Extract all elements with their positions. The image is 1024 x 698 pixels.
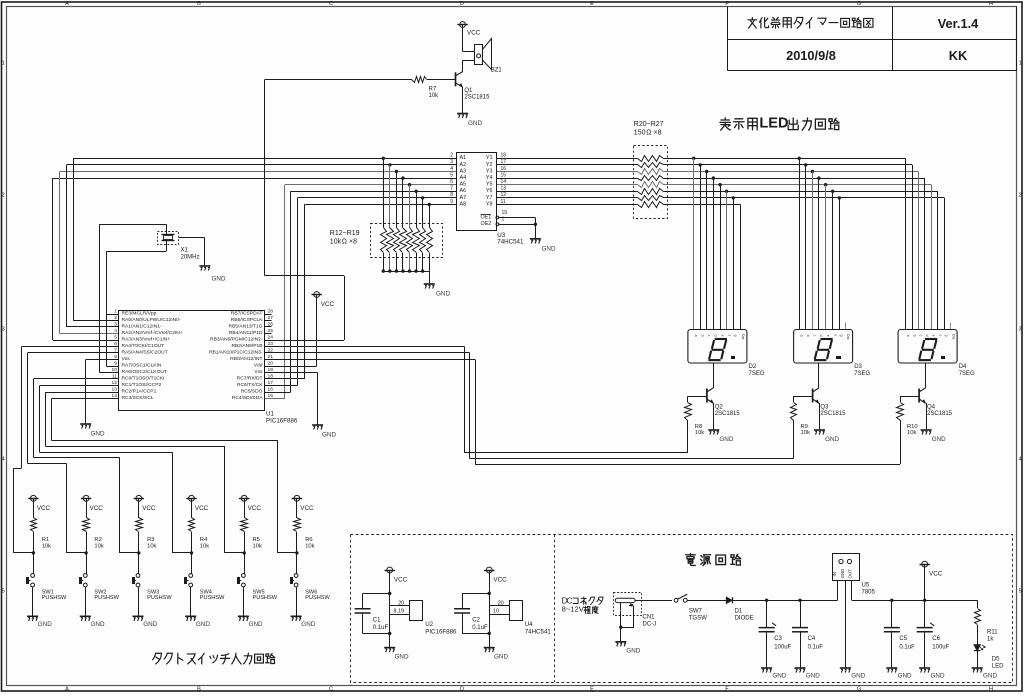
svg-text:g: g xyxy=(945,335,949,337)
svg-text:Ver.1.4: Ver.1.4 xyxy=(938,16,979,31)
svg-text:R9: R9 xyxy=(801,424,808,430)
svg-text:GND: GND xyxy=(825,436,839,443)
svg-text:a: a xyxy=(694,335,698,337)
svg-text:7SEG: 7SEG xyxy=(959,371,975,377)
svg-text:R10: R10 xyxy=(907,424,918,430)
svg-text:g: g xyxy=(734,335,738,337)
svg-text:C: C xyxy=(329,1,333,7)
svg-text:B: B xyxy=(197,687,201,693)
svg-text:VCC: VCC xyxy=(321,301,335,308)
svg-text:RA3/AN3/Vref+/C1IN+: RA3/AN3/Vref+/C1IN+ xyxy=(122,337,171,343)
svg-text:G: G xyxy=(857,687,861,693)
svg-text:2SC1815: 2SC1815 xyxy=(927,411,953,417)
svg-text:3: 3 xyxy=(114,322,117,328)
svg-text:CN1: CN1 xyxy=(643,615,656,621)
svg-text:9: 9 xyxy=(114,361,117,367)
svg-text:10: 10 xyxy=(493,609,499,615)
svg-text:U5: U5 xyxy=(862,582,870,588)
svg-text:0.1uF: 0.1uF xyxy=(808,644,824,650)
svg-text:F: F xyxy=(725,687,729,693)
svg-text:10k: 10k xyxy=(695,430,704,436)
svg-text:2SC1815: 2SC1815 xyxy=(464,94,490,100)
svg-text:2: 2 xyxy=(450,153,453,159)
svg-text:13: 13 xyxy=(112,387,118,393)
svg-text:1: 1 xyxy=(2,60,5,66)
svg-text:2010/9/8: 2010/9/8 xyxy=(786,48,836,63)
svg-text:13: 13 xyxy=(501,186,507,192)
svg-text:10k: 10k xyxy=(330,238,342,245)
svg-text:Y3: Y3 xyxy=(486,168,493,174)
svg-text:RB1/AN10/P1C/C12IN3-: RB1/AN10/P1C/C12IN3- xyxy=(209,350,263,356)
svg-text:OUT: OUT xyxy=(848,569,853,579)
svg-text:5: 5 xyxy=(2,588,5,594)
svg-text:A1: A1 xyxy=(460,155,467,161)
svg-text:RC4/SDI/SDA: RC4/SDI/SDA xyxy=(232,395,263,401)
svg-text:c: c xyxy=(707,335,711,337)
svg-text:VCC: VCC xyxy=(929,571,943,578)
svg-text:Q3: Q3 xyxy=(820,405,829,411)
svg-text:U1: U1 xyxy=(266,410,274,417)
svg-text:d: d xyxy=(819,335,823,337)
svg-text:9: 9 xyxy=(450,199,453,205)
svg-text:GND: GND xyxy=(301,621,315,628)
svg-text:KK: KK xyxy=(949,48,968,63)
svg-text:GND: GND xyxy=(38,621,52,628)
svg-text:5: 5 xyxy=(114,335,117,341)
svg-text:H: H xyxy=(989,687,993,693)
svg-text:C5: C5 xyxy=(899,636,907,642)
svg-text:RC5/SDO: RC5/SDO xyxy=(241,389,263,395)
svg-text:RA5/AN4/SS/C2OUT: RA5/AN4/SS/C2OUT xyxy=(122,350,168,356)
svg-text:PUSHSW: PUSHSW xyxy=(305,595,330,601)
svg-text:c: c xyxy=(919,335,923,337)
svg-text:f: f xyxy=(833,335,837,336)
svg-text:R7: R7 xyxy=(429,87,437,93)
svg-text:RC1/T1OSI/CCP2: RC1/T1OSI/CCP2 xyxy=(122,382,162,388)
svg-text:4: 4 xyxy=(1019,456,1022,462)
svg-text:RA7/OSC1/CLKIN: RA7/OSC1/CLKIN xyxy=(122,363,162,369)
svg-text:Vdd: Vdd xyxy=(254,363,263,369)
svg-text:e: e xyxy=(720,335,724,337)
svg-text:C2: C2 xyxy=(472,617,480,623)
svg-text:PUSHSW: PUSHSW xyxy=(200,595,225,601)
svg-text:Q4: Q4 xyxy=(927,405,936,411)
svg-text:C6: C6 xyxy=(932,636,940,642)
svg-text:11: 11 xyxy=(501,199,506,205)
svg-text:2SC1815: 2SC1815 xyxy=(715,411,741,417)
svg-text:20MHz: 20MHz xyxy=(181,254,200,260)
svg-text:F: F xyxy=(725,1,729,7)
svg-text:Vss: Vss xyxy=(254,369,263,375)
svg-text:GND: GND xyxy=(626,648,640,655)
svg-text:PUSHSW: PUSHSW xyxy=(253,595,278,601)
svg-text:GND: GND xyxy=(719,436,733,443)
svg-text:R1: R1 xyxy=(42,537,49,543)
svg-text:b: b xyxy=(700,335,704,337)
svg-text:GND: GND xyxy=(931,673,945,680)
svg-text:GND: GND xyxy=(851,673,865,680)
svg-text:GND: GND xyxy=(542,245,556,252)
svg-text:20: 20 xyxy=(268,361,274,367)
svg-text:R20~R27: R20~R27 xyxy=(634,121,664,128)
svg-text:VCC: VCC xyxy=(248,505,262,512)
svg-text:GND: GND xyxy=(468,120,482,127)
svg-text:C1: C1 xyxy=(373,617,381,623)
svg-text:X1: X1 xyxy=(181,247,189,253)
svg-text:D3: D3 xyxy=(854,364,862,370)
svg-text:TGSW: TGSW xyxy=(689,615,707,621)
svg-text:LED: LED xyxy=(759,116,788,132)
svg-text:GND: GND xyxy=(91,431,105,438)
svg-text:Dot: Dot xyxy=(741,334,745,339)
svg-text:E: E xyxy=(590,687,594,693)
svg-text:C: C xyxy=(329,687,333,693)
svg-text:8~12V: 8~12V xyxy=(562,605,585,614)
svg-text:24: 24 xyxy=(268,335,274,341)
svg-text:Vss: Vss xyxy=(122,356,131,362)
svg-text:Dot: Dot xyxy=(846,334,850,339)
svg-text:B: B xyxy=(197,1,201,7)
svg-text:7805: 7805 xyxy=(862,590,876,596)
svg-text:RC0/T1OSO/T1CKI: RC0/T1OSO/T1CKI xyxy=(122,376,165,382)
svg-text:R2: R2 xyxy=(94,537,101,543)
svg-text:GND: GND xyxy=(932,436,946,443)
svg-text:2SC1815: 2SC1815 xyxy=(820,411,846,417)
svg-text:VCC: VCC xyxy=(394,577,408,584)
svg-text:VCC: VCC xyxy=(37,505,51,512)
svg-text:RB0/AN12/INT: RB0/AN12/INT xyxy=(230,356,262,362)
svg-text:18: 18 xyxy=(268,374,274,380)
svg-text:GND: GND xyxy=(806,673,820,680)
svg-text:74HC541: 74HC541 xyxy=(525,629,552,636)
svg-text:4: 4 xyxy=(2,456,5,462)
svg-text:74HC541: 74HC541 xyxy=(497,238,524,245)
svg-text:b: b xyxy=(912,335,916,337)
svg-text:R12~R19: R12~R19 xyxy=(330,230,360,237)
svg-text:G: G xyxy=(857,1,861,7)
svg-text:D2: D2 xyxy=(749,364,757,370)
svg-text:R11: R11 xyxy=(987,629,998,635)
svg-text:U2: U2 xyxy=(425,621,433,628)
svg-text:H: H xyxy=(989,1,993,7)
svg-text:8,19: 8,19 xyxy=(394,609,405,615)
svg-text:GND: GND xyxy=(249,621,263,628)
svg-text:PUSHSW: PUSHSW xyxy=(147,595,172,601)
svg-text:VCC: VCC xyxy=(142,505,156,512)
svg-text:Y5: Y5 xyxy=(486,182,493,188)
svg-text:OE2: OE2 xyxy=(481,221,492,227)
svg-text:10k: 10k xyxy=(907,430,916,436)
svg-text:Y4: Y4 xyxy=(486,175,493,181)
svg-text:10k: 10k xyxy=(801,430,810,436)
svg-text:10k: 10k xyxy=(200,543,209,549)
svg-text:U4: U4 xyxy=(525,621,533,628)
svg-text:LED: LED xyxy=(992,664,1004,670)
svg-text:GND: GND xyxy=(436,290,450,297)
svg-text:b: b xyxy=(806,335,810,337)
svg-text:0.1uF: 0.1uF xyxy=(472,625,488,631)
svg-text:10k: 10k xyxy=(305,543,314,549)
svg-text:DC-J: DC-J xyxy=(643,622,657,628)
svg-text:6: 6 xyxy=(450,179,453,185)
svg-text:4: 4 xyxy=(114,328,117,334)
svg-text:PUSHSW: PUSHSW xyxy=(94,595,119,601)
svg-text:2: 2 xyxy=(1019,192,1022,198)
svg-text:RC3/SCK/SCL: RC3/SCK/SCL xyxy=(122,395,154,401)
svg-text:RB4/AN11/P1D: RB4/AN11/P1D xyxy=(229,330,263,336)
svg-text:3: 3 xyxy=(1019,326,1022,332)
svg-text:d: d xyxy=(925,335,929,337)
svg-text:RB2/AN8/P1B: RB2/AN8/P1B xyxy=(232,343,263,349)
svg-text:R8: R8 xyxy=(695,424,702,430)
svg-text:Ω ×8: Ω ×8 xyxy=(342,238,357,245)
svg-text:VCC: VCC xyxy=(90,505,104,512)
svg-text:20: 20 xyxy=(498,601,504,607)
svg-text:R5: R5 xyxy=(253,537,260,543)
svg-text:150: 150 xyxy=(634,129,646,136)
svg-text:10k: 10k xyxy=(94,543,103,549)
svg-text:2: 2 xyxy=(2,192,5,198)
svg-text:10k: 10k xyxy=(147,543,156,549)
svg-text:0.1uF: 0.1uF xyxy=(373,625,389,631)
svg-text:GND: GND xyxy=(322,432,336,439)
svg-text:C4: C4 xyxy=(808,636,816,642)
svg-text:10k: 10k xyxy=(429,93,440,99)
svg-text:A: A xyxy=(65,1,69,7)
svg-text:e: e xyxy=(932,335,936,337)
svg-text:GND: GND xyxy=(196,621,210,628)
svg-text:IN: IN xyxy=(832,572,837,576)
svg-text:RC2/P1A/CCP1: RC2/P1A/CCP1 xyxy=(122,389,157,395)
svg-text:d: d xyxy=(714,335,718,337)
svg-text:10k: 10k xyxy=(253,543,262,549)
svg-text:3: 3 xyxy=(2,326,5,332)
svg-text:c: c xyxy=(813,335,817,337)
svg-text:PIC16F886: PIC16F886 xyxy=(425,629,457,636)
svg-text:GND: GND xyxy=(772,673,786,680)
svg-text:19: 19 xyxy=(502,210,508,216)
svg-text:7: 7 xyxy=(450,186,453,192)
svg-text:GND: GND xyxy=(143,621,157,628)
svg-text:1: 1 xyxy=(1019,60,1022,66)
svg-text:1k: 1k xyxy=(987,637,994,643)
svg-text:RB3/AN9/PGM/C12IN2-: RB3/AN9/PGM/C12IN2- xyxy=(210,337,263,343)
svg-text:A3: A3 xyxy=(460,168,467,174)
svg-text:14: 14 xyxy=(501,179,507,185)
svg-text:R3: R3 xyxy=(147,537,154,543)
svg-text:A4: A4 xyxy=(460,175,467,181)
svg-text:A2: A2 xyxy=(460,162,467,168)
svg-text:RA4/T0CKI/C1OUT: RA4/T0CKI/C1OUT xyxy=(122,343,165,349)
svg-text:15: 15 xyxy=(501,172,507,178)
svg-text:RB7/ICSPDAT: RB7/ICSPDAT xyxy=(231,311,263,317)
svg-text:RA0/AN0/ULPWU/C12IN0-: RA0/AN0/ULPWU/C12IN0- xyxy=(122,317,181,323)
svg-text:5: 5 xyxy=(1019,588,1022,594)
svg-text:f: f xyxy=(727,335,731,336)
svg-text:A7: A7 xyxy=(460,195,467,201)
svg-text:RA2/AN2/Vref-/CVref/C2IN+: RA2/AN2/Vref-/CVref/C2IN+ xyxy=(122,330,183,336)
svg-text:D: D xyxy=(460,687,464,693)
svg-text:100uF: 100uF xyxy=(932,644,949,650)
svg-text:GND: GND xyxy=(212,275,226,282)
svg-text:Y1: Y1 xyxy=(486,155,493,161)
svg-text:D1: D1 xyxy=(735,608,743,614)
svg-text:100uF: 100uF xyxy=(774,644,791,650)
svg-text:R6: R6 xyxy=(305,537,312,543)
svg-text:Q2: Q2 xyxy=(715,405,724,411)
svg-text:A8: A8 xyxy=(460,201,467,207)
svg-text:PIC16F886: PIC16F886 xyxy=(266,418,298,425)
svg-text:RE3/MCLR/Vpp: RE3/MCLR/Vpp xyxy=(122,311,157,317)
svg-text:4: 4 xyxy=(450,166,453,172)
svg-text:GND: GND xyxy=(494,654,508,661)
svg-text:GND: GND xyxy=(840,569,845,579)
svg-text:RB5/AN13/T1G: RB5/AN13/T1G xyxy=(229,324,263,330)
svg-text:OE1: OE1 xyxy=(481,214,492,220)
svg-text:GND: GND xyxy=(395,654,409,661)
svg-text:RC6/TX/CK: RC6/TX/CK xyxy=(237,382,263,388)
svg-text:Y8: Y8 xyxy=(486,201,493,207)
svg-text:7SEG: 7SEG xyxy=(854,371,870,377)
svg-text:R4: R4 xyxy=(200,537,208,543)
svg-text:2: 2 xyxy=(114,315,117,321)
svg-text:3: 3 xyxy=(450,159,453,165)
svg-text:RC7/RX/DT: RC7/RX/DT xyxy=(237,376,263,382)
svg-text:Q1: Q1 xyxy=(464,88,473,94)
svg-text:12: 12 xyxy=(501,192,507,198)
svg-text:16: 16 xyxy=(268,387,274,393)
svg-text:0.1uF: 0.1uF xyxy=(899,644,915,650)
svg-text:RA6/OSC2/CLKOUT: RA6/OSC2/CLKOUT xyxy=(122,369,167,375)
svg-text:GND: GND xyxy=(983,673,997,680)
svg-text:8: 8 xyxy=(450,192,453,198)
svg-text:PUSHSW: PUSHSW xyxy=(42,595,67,601)
svg-text:18: 18 xyxy=(501,153,507,159)
svg-text:16: 16 xyxy=(501,166,507,172)
svg-text:VCC: VCC xyxy=(300,505,314,512)
svg-text:e: e xyxy=(826,335,830,337)
svg-text:Y2: Y2 xyxy=(486,162,493,168)
svg-text:15: 15 xyxy=(268,393,274,399)
svg-text:BZ1: BZ1 xyxy=(491,67,503,73)
svg-text:VCC: VCC xyxy=(467,29,481,36)
svg-text:g: g xyxy=(840,335,844,337)
svg-text:7SEG: 7SEG xyxy=(749,371,765,377)
svg-text:SW7: SW7 xyxy=(689,608,703,614)
svg-text:VCC: VCC xyxy=(493,577,507,584)
svg-text:10k: 10k xyxy=(42,543,51,549)
svg-text:1: 1 xyxy=(114,309,117,315)
svg-text:a: a xyxy=(906,335,910,337)
svg-text:GND: GND xyxy=(898,673,912,680)
svg-text:RB6/ICSPCLK: RB6/ICSPCLK xyxy=(231,317,264,323)
svg-text:Y6: Y6 xyxy=(486,188,493,194)
svg-text:20: 20 xyxy=(398,601,404,607)
svg-text:RA1/AN1/C12IN1-: RA1/AN1/C12IN1- xyxy=(122,324,162,330)
svg-text:A: A xyxy=(65,687,69,693)
svg-text:GND: GND xyxy=(91,621,105,628)
svg-text:A5: A5 xyxy=(460,182,467,188)
svg-text:VCC: VCC xyxy=(195,505,209,512)
svg-text:5: 5 xyxy=(450,172,453,178)
svg-text:Ω ×8: Ω ×8 xyxy=(646,129,661,136)
svg-text:a: a xyxy=(799,335,803,337)
svg-text:Y7: Y7 xyxy=(486,195,493,201)
svg-text:Dot: Dot xyxy=(951,334,955,339)
svg-text:D: D xyxy=(460,1,464,7)
svg-text:A6: A6 xyxy=(460,188,467,194)
svg-text:17: 17 xyxy=(268,380,274,386)
svg-text:f: f xyxy=(938,335,942,336)
svg-text:28: 28 xyxy=(268,309,274,315)
svg-text:C3: C3 xyxy=(774,636,782,642)
svg-text:E: E xyxy=(590,1,594,7)
svg-text:D5: D5 xyxy=(992,656,1000,662)
svg-text:D4: D4 xyxy=(959,364,967,370)
svg-text:17: 17 xyxy=(501,159,507,165)
svg-text:DIODE: DIODE xyxy=(735,615,754,621)
